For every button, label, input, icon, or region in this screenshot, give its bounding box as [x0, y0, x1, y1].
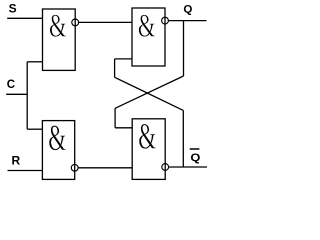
- svg-text:S: S: [9, 1, 17, 15]
- wire Qbar feedback into U3 input: [115, 58, 132, 60]
- wire Q output: [168, 20, 206, 22]
- wire Qbar feedback diagonal: [115, 77, 184, 110]
- wire Q feedback into U4 input: [115, 127, 132, 129]
- wire C branch to U2: [27, 128, 42, 130]
- wire Q feedback vertical drop: [183, 21, 185, 76]
- nand gate U3 box: [132, 8, 165, 66]
- wire U1 output to U3 input: [78, 21, 132, 23]
- wire C branch vertical: [26, 62, 28, 129]
- svg-text:R: R: [12, 153, 21, 167]
- wire C input horizontal: [6, 93, 27, 95]
- svg-text:C: C: [7, 79, 15, 91]
- svg-text:Q: Q: [190, 152, 201, 164]
- wire S input to U1: [7, 17, 42, 19]
- wire R input to U2: [8, 170, 43, 172]
- nand gate U4 box: [132, 119, 165, 180]
- wire Q feedback vertical to U4: [114, 108, 116, 128]
- wire C branch to U1: [27, 61, 42, 63]
- nand gate U3 output bubble: [162, 17, 169, 24]
- nand gate U4 output bubble: [162, 164, 169, 171]
- nand gate U1 output bubble: [72, 19, 79, 26]
- wire Qbar output: [168, 166, 207, 168]
- nand gate U2 output bubble: [71, 164, 78, 171]
- wire U2 output to U4 input: [78, 167, 132, 169]
- nand gate U1 box: [43, 9, 76, 70]
- label Qbar overline: [190, 148, 200, 150]
- svg-text:Q: Q: [183, 3, 192, 15]
- wire Qbar feedback vertical rise: [182, 110, 184, 167]
- wire Qbar feedback vertical to U3: [114, 59, 116, 77]
- nand gate U2 box: [42, 121, 74, 180]
- wire Q feedback diagonal: [115, 76, 183, 108]
